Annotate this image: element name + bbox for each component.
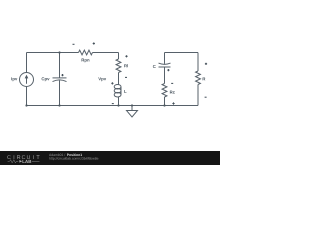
wire Cpv branch top	[59, 53, 61, 78]
logo zigzag	[8, 160, 19, 163]
polarity plus R top	[205, 63, 207, 65]
polarity plus Rc bottom	[172, 102, 174, 104]
polarity minus Rl bottom	[125, 76, 127, 78]
label Vpv	[98, 77, 106, 81]
current source Ipv circle	[20, 73, 34, 87]
wire bottom rail	[27, 105, 199, 107]
label Rpn	[82, 59, 90, 63]
inductor L coil loop 2	[114, 88, 121, 93]
resistor R zigzag	[196, 71, 201, 85]
logo CIRCUIT	[7, 155, 10, 159]
inductor L coil loop 1	[114, 84, 121, 89]
footer url	[49, 157, 98, 160]
capacitor C straight bottom plate	[159, 66, 171, 68]
current source Ipv arrow stem	[26, 77, 28, 84]
wire Cpv branch bottom	[59, 80, 61, 105]
ground stub	[131, 106, 133, 111]
footer user gray part	[49, 154, 65, 156]
wire Rc to bottom rail	[164, 97, 166, 106]
resistor Rl zigzag	[116, 59, 121, 72]
capacitor Cpv top plate	[53, 77, 67, 79]
node dot Ipv bottom	[25, 104, 27, 106]
node dot ground	[131, 104, 133, 106]
label C	[153, 65, 156, 68]
label L	[124, 90, 126, 93]
polarity minus R bottom	[205, 96, 207, 98]
node dot Cpv bottom	[58, 104, 60, 106]
label Rc	[170, 91, 175, 94]
logo LAB	[23, 160, 32, 163]
polarity minus Rpn left	[73, 43, 75, 45]
wire R branch bottom	[197, 85, 199, 106]
footer bar	[0, 151, 220, 165]
wire right loop top rail	[165, 52, 199, 54]
wire Ipv branch top	[26, 53, 28, 73]
capacitor C curved top plate	[159, 63, 171, 64]
polarity plus Rl top	[125, 55, 127, 57]
capacitor Cpv curved bottom plate	[53, 80, 67, 82]
resistor Rpn zigzag	[79, 50, 93, 55]
logo arrow	[19, 160, 22, 163]
inductor L coil loop 3	[114, 92, 121, 97]
label R	[203, 77, 206, 80]
footer user bold part	[67, 154, 82, 156]
wire C to Rc	[164, 67, 166, 84]
node dot Cpv top	[58, 51, 60, 53]
wire L to bottom rail	[118, 97, 120, 106]
polarity plus Rpn right	[93, 42, 95, 44]
ground triangle	[127, 111, 138, 118]
polarity plus Vpv	[111, 82, 113, 84]
label Ipv	[11, 77, 17, 81]
wire Ipv branch bottom	[26, 87, 28, 106]
wire C branch stub	[164, 53, 166, 64]
node dot Rc bottom	[163, 104, 165, 106]
resistor Rc zigzag	[162, 84, 167, 98]
current source Ipv arrow head	[25, 75, 29, 79]
wire between Rl and L	[118, 73, 120, 85]
polarity minus Rc top	[171, 82, 173, 84]
inductor L right strand	[120, 87, 122, 95]
polarity plus Cpv	[61, 74, 63, 76]
polarity plus C	[167, 69, 169, 71]
node dot L bottom	[117, 104, 119, 106]
polarity minus Vpv	[112, 103, 114, 105]
logo tail line	[32, 160, 40, 162]
label Rl	[124, 64, 128, 67]
wire Rl branch top	[118, 53, 120, 60]
wire top rail left	[27, 52, 119, 54]
label Cpv	[42, 77, 50, 81]
wire R branch top	[197, 53, 199, 72]
